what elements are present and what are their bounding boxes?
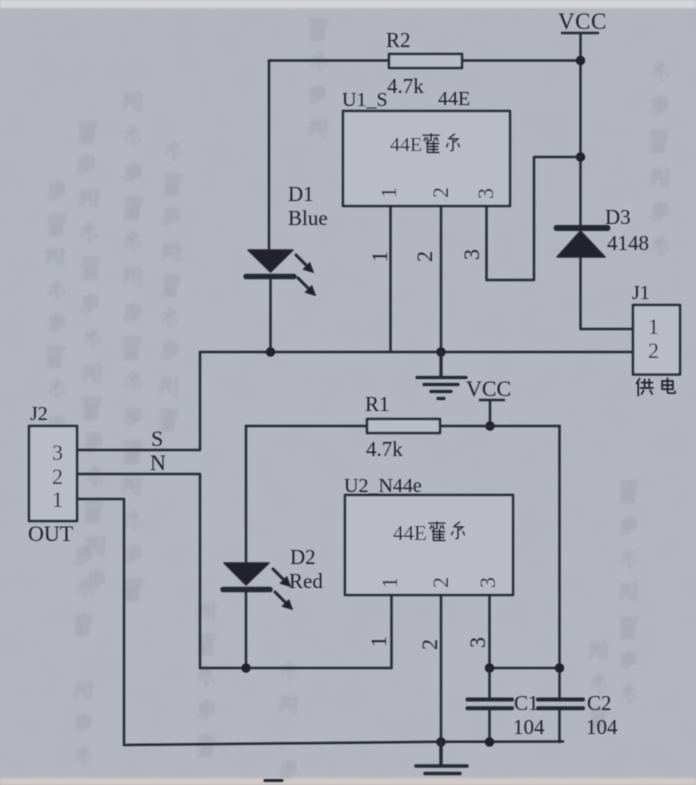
junction dot C1/rail — [485, 737, 494, 746]
U1 pin 1 wire — [389, 206, 392, 352]
junction dot U1 pin2/net — [436, 347, 445, 356]
junction dot at VCC/R2 — [576, 56, 585, 65]
label Blue — [288, 206, 328, 230]
U2 pin labels outside — [366, 636, 490, 650]
svg-text:1: 1 — [367, 251, 392, 262]
svg-text:2: 2 — [52, 464, 63, 489]
svg-text:D2: D2 — [290, 545, 316, 569]
svg-text:3: 3 — [465, 637, 490, 648]
wire D1 branch vertical — [269, 61, 271, 353]
IC U2 box — [345, 495, 513, 595]
svg-text:U2_N44e: U2_N44e — [344, 475, 422, 497]
resistor R2 body — [389, 54, 462, 68]
label VCC top — [558, 9, 607, 34]
svg-text:Red: Red — [289, 569, 323, 593]
ground symbol bottom — [416, 742, 467, 774]
svg-text:R1: R1 — [365, 392, 390, 416]
svg-text:Blue: Blue — [288, 206, 328, 230]
label D3 — [605, 205, 631, 229]
J1 pin numbers — [648, 314, 659, 363]
label 44E霍尔 (U1) — [390, 134, 459, 156]
wire N branch — [77, 474, 200, 668]
junction dot pin2/rail — [436, 737, 445, 746]
junction dot pin3/C1 — [485, 663, 494, 672]
U1 pin labels outside — [367, 249, 484, 262]
svg-text:1: 1 — [366, 636, 391, 647]
svg-text:VCC: VCC — [466, 376, 511, 401]
svg-text:1: 1 — [52, 487, 63, 512]
junction dot at pin3 link — [576, 152, 585, 161]
svg-text:2: 2 — [428, 577, 453, 588]
scan artifact tick bottom edge — [265, 779, 282, 782]
label C1 — [514, 691, 539, 715]
svg-text:J1: J1 — [632, 282, 650, 304]
connector J2 box — [29, 426, 77, 521]
capacitor C2 — [538, 700, 583, 743]
svg-text:R2: R2 — [386, 28, 411, 52]
junction dot D2/net — [241, 663, 250, 672]
svg-text:3: 3 — [52, 440, 63, 465]
label OUT — [28, 521, 74, 546]
label R2 — [386, 28, 411, 52]
U2 pin 1 wire — [200, 595, 392, 668]
svg-text:3: 3 — [459, 249, 484, 260]
label N — [150, 450, 166, 475]
capacitor C1 — [468, 668, 513, 742]
junction dot VCC2/R1 net — [485, 421, 494, 430]
svg-text:104: 104 — [586, 715, 618, 739]
U1 pin 2 wire — [440, 206, 443, 352]
svg-text:44E: 44E — [438, 88, 470, 110]
value 104 (C2) — [586, 715, 618, 739]
value 4148 — [607, 231, 649, 255]
svg-text:OUT: OUT — [28, 521, 74, 546]
label R1 — [365, 392, 390, 416]
svg-text:4.7k: 4.7k — [387, 74, 424, 98]
svg-text:S: S — [151, 426, 163, 451]
wire D2 branch vertical — [245, 426, 248, 668]
svg-text:J2: J2 — [30, 403, 48, 425]
svg-text:3: 3 — [475, 577, 500, 588]
J2 pin numbers — [52, 440, 63, 512]
value 4.7k (R2) — [387, 74, 424, 98]
U1 pin numbers inside — [376, 187, 498, 199]
junction dot C2 top — [555, 663, 564, 672]
IC U1 box — [343, 111, 510, 206]
svg-text:2: 2 — [412, 251, 437, 262]
connector J1 box — [633, 305, 680, 375]
svg-text:1: 1 — [648, 314, 659, 339]
U1 pin 3 wire — [487, 157, 581, 280]
VCC mid symbol — [480, 400, 504, 426]
label S — [151, 426, 163, 451]
svg-text:N: N — [150, 450, 166, 475]
svg-text:VCC: VCC — [558, 9, 607, 34]
svg-text:44E: 44E — [390, 134, 422, 156]
svg-text:D3: D3 — [605, 205, 631, 229]
label D1 — [288, 182, 314, 206]
svg-text:1: 1 — [376, 187, 401, 198]
svg-text:3: 3 — [473, 188, 498, 199]
value 104 (C1) — [513, 715, 545, 739]
wire bottom rail — [124, 742, 563, 746]
resistor R1 body — [367, 419, 440, 433]
svg-text:2: 2 — [428, 187, 453, 198]
wire VCC stem down to D3 and J1 pin1 — [581, 60, 634, 329]
label Red — [289, 569, 323, 593]
ground symbol upper — [417, 352, 466, 399]
wire pin3 to C1 C2 top — [490, 667, 560, 670]
label VCC mid — [466, 376, 511, 401]
label J1 — [632, 282, 650, 304]
svg-text:4.7k: 4.7k — [366, 437, 403, 461]
junction dot D1/net — [266, 347, 275, 356]
U2 pin 2 wire — [440, 595, 443, 742]
svg-text:104: 104 — [513, 715, 545, 739]
wire R2 net: top horizontal — [269, 59, 581, 62]
svg-text:C2: C2 — [587, 691, 612, 715]
label C2 — [587, 691, 612, 715]
diode D3 — [557, 228, 608, 257]
svg-text:4148: 4148 — [607, 231, 649, 255]
LED D2 — [223, 563, 293, 610]
wire J2 pin1 to bottom rail — [77, 499, 124, 745]
value 4.7k (R1) — [366, 437, 403, 461]
label 44E霍尔 (U2) — [393, 521, 464, 545]
svg-text:D1: D1 — [288, 182, 314, 206]
wire C2 branch vertical — [558, 426, 561, 697]
wire S branch — [77, 352, 200, 450]
label J2 — [30, 403, 48, 425]
VCC top symbol — [562, 33, 598, 60]
wire R1 net horizontal — [246, 425, 560, 428]
svg-text:C1: C1 — [514, 691, 539, 715]
svg-text:2: 2 — [648, 338, 659, 363]
label D2 — [290, 545, 316, 569]
label 供电 (J1) — [637, 378, 676, 395]
svg-text:1: 1 — [377, 577, 402, 588]
label U1_S — [342, 89, 388, 111]
node wire: main horizontal net y=352 — [200, 351, 633, 354]
U2 pin 3 wire — [488, 595, 491, 668]
LED D1 — [246, 250, 316, 296]
label U2_N44e — [344, 475, 422, 497]
U2 pin numbers inside — [377, 577, 500, 588]
svg-text:44E: 44E — [393, 521, 427, 545]
svg-text:2: 2 — [417, 639, 442, 650]
label 44E (U1) — [438, 88, 470, 110]
svg-text:U1_S: U1_S — [342, 89, 388, 111]
